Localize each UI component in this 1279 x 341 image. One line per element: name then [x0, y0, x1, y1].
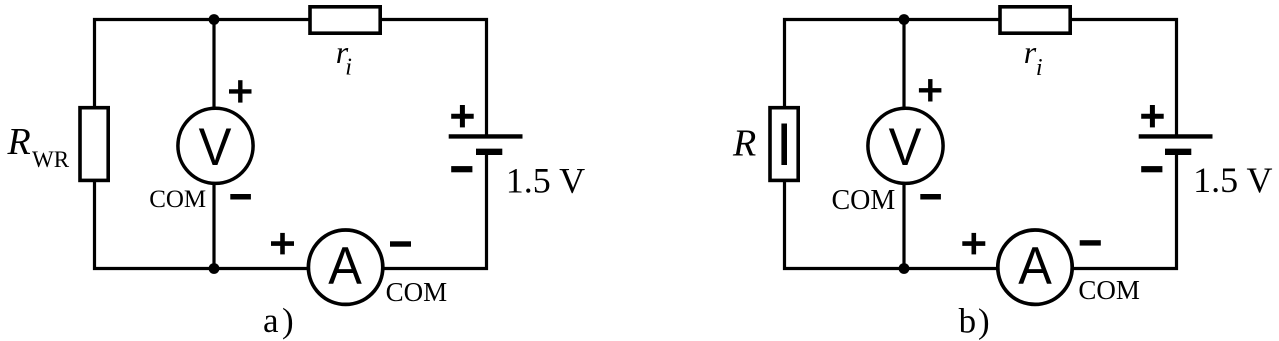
label r_i (b)	[1024, 34, 1043, 81]
svg-text:V: V	[199, 118, 232, 177]
battery BT1 plates	[449, 136, 523, 151]
polarity + (battery a)	[451, 105, 474, 127]
polarity + (voltmeter)	[229, 80, 252, 102]
polarity - (voltmeter)	[230, 194, 251, 200]
polarity + (ammeter b)	[962, 233, 985, 255]
polarity - (battery b)	[1141, 166, 1162, 172]
svg-text:COM: COM	[1078, 275, 1140, 305]
svg-text:V: V	[889, 118, 922, 177]
polarity - (battery a)	[451, 166, 472, 172]
node: a) top junction	[209, 14, 220, 25]
svg-text:1.5 V: 1.5 V	[506, 161, 585, 201]
resistor r_i (b)	[1000, 7, 1070, 33]
svg-text:R: R	[7, 121, 31, 163]
polarity + (voltmeter b)	[919, 79, 942, 101]
polarity - (ammeter b)	[1080, 240, 1101, 245]
node: b) top junction	[899, 14, 910, 25]
voltmeter V1	[178, 108, 253, 183]
wire: b) voltmeter top lead	[902, 20, 905, 111]
svg-text:A: A	[328, 237, 362, 296]
label R_WR	[7, 121, 70, 172]
svg-text:COM: COM	[832, 185, 896, 216]
wire: b) left branch bottom + bottom rail left	[785, 180, 999, 269]
svg-text:A: A	[1018, 237, 1052, 296]
wire: a) voltmeter top lead	[212, 20, 215, 111]
svg-text:R: R	[732, 123, 756, 165]
wire: b) left branch top (corner)	[785, 20, 1001, 109]
wire: a) battery - lead + bottom rail right	[383, 152, 487, 269]
voltmeter V2	[868, 108, 943, 183]
polarity + (ammeter a)	[271, 233, 294, 255]
wire: a) top rail right (corner to battery +)	[381, 20, 487, 137]
resistor R_WR	[80, 108, 108, 181]
svg-text:b: b	[959, 301, 977, 340]
wire: b) voltmeter bottom lead	[902, 183, 905, 269]
polarity - (ammeter a)	[390, 241, 411, 246]
resistor R (wirewound, with bar)	[770, 108, 798, 181]
svg-text:COM: COM	[386, 277, 448, 307]
svg-text:i: i	[345, 55, 352, 81]
polarity + (battery b)	[1141, 105, 1164, 127]
wire: a) voltmeter bottom lead	[212, 183, 215, 269]
ammeter A1	[308, 230, 382, 304]
node: a) bottom junction	[209, 263, 220, 274]
svg-text:COM: COM	[149, 186, 206, 213]
wire: a) left branch bottom + bottom rail left	[95, 180, 309, 269]
label r_i	[336, 34, 352, 81]
svg-text:a: a	[263, 301, 279, 340]
battery BT2 plates	[1139, 136, 1213, 151]
node: b) bottom junction	[899, 263, 910, 274]
svg-text:1.5 V: 1.5 V	[1193, 160, 1272, 200]
svg-text:): )	[282, 301, 294, 340]
svg-text:): )	[978, 301, 990, 340]
wire: b) top rail right (corner to battery +)	[1071, 20, 1177, 137]
resistor r_i	[310, 7, 380, 33]
polarity - (voltmeter b)	[920, 194, 941, 200]
svg-text:i: i	[1036, 55, 1043, 81]
wire: a) left branch top (corner)	[95, 20, 311, 109]
wire: b) battery - lead + bottom rail right	[1073, 152, 1177, 269]
svg-text:WR: WR	[32, 147, 70, 172]
svg-text:r: r	[1024, 34, 1037, 70]
ammeter A2	[998, 230, 1072, 304]
